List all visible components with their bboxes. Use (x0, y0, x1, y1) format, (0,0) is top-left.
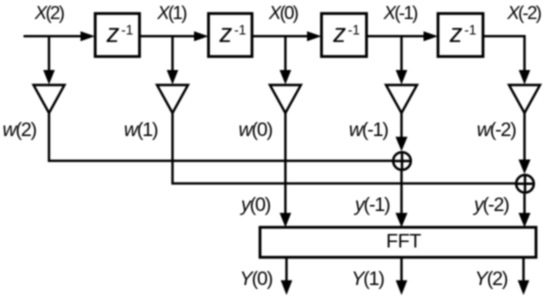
wire: between delay 2 and delay 3 (252, 35, 310, 37)
svg-text:-1: -1 (234, 22, 246, 37)
delay block U4 z^-1 (438, 14, 483, 57)
wire: column 1 multiplier output down to sum line (49, 113, 392, 161)
wire: junction drop column 3 (284, 36, 286, 70)
svg-text:w(1): w(1) (124, 119, 158, 141)
arrowhead into multiplier 3 (280, 70, 292, 85)
svg-text:w(2): w(2) (3, 119, 37, 141)
adder 1 (circle-plus) (393, 152, 411, 170)
svg-text:X(0): X(0) (268, 2, 299, 23)
delay block U2 z^-1 (209, 14, 253, 57)
wire: column 3 multiplier output down to FFT (284, 113, 286, 214)
delay block U3 z^-1 (322, 14, 367, 57)
wire: between delay 3 and delay 4 (367, 35, 427, 37)
wire: junction drop column 2 (171, 36, 173, 70)
svg-text:w(0): w(0) (239, 119, 273, 141)
wire: adder 2 output down to FFT (523, 194, 525, 214)
adder 2 (circle-plus) (516, 175, 534, 193)
arrowhead y(0) into FFT (280, 213, 292, 228)
arrowhead into adder 1 (396, 137, 408, 152)
multiplier triangle w(2) (34, 85, 65, 113)
svg-text:X(-2): X(-2) (506, 2, 542, 23)
svg-text:z: z (449, 20, 463, 48)
wire: FFT output stem Y(2) (522, 257, 524, 282)
arrowhead into multiplier 1 (43, 70, 55, 85)
arrowhead output Y(0) (281, 280, 293, 295)
wire: delay 4 output to column 5 corner (483, 36, 525, 70)
svg-text:X(-1): X(-1) (383, 2, 419, 23)
arrowhead into adder 2 (519, 160, 531, 175)
svg-text:z: z (332, 20, 346, 48)
svg-text:w(-2): w(-2) (477, 119, 517, 141)
wire: adder 1 output down to FFT (400, 171, 402, 214)
wire: top input line into first delay (24, 35, 84, 37)
svg-text:-1: -1 (464, 22, 476, 37)
arrowhead y(-1) into FFT (396, 213, 408, 228)
arrowhead y(-2) into FFT (519, 213, 531, 228)
svg-text:X(2): X(2) (34, 2, 65, 23)
svg-text:y(-1): y(-1) (353, 194, 390, 216)
wire: column 5 multiplier output into adder (523, 113, 525, 161)
svg-text:y(-2): y(-2) (472, 194, 509, 216)
multiplier triangle w(-2) (509, 85, 540, 113)
wire: FFT output stem Y(0) (285, 257, 287, 282)
multiplier triangle w(-1) (386, 85, 417, 113)
arrowhead output Y(1) (396, 280, 408, 295)
wire: junction drop column 4 (400, 36, 402, 70)
svg-text:Y(0): Y(0) (240, 268, 273, 290)
wire: FFT output stem Y(1) (400, 257, 402, 282)
wire: junction drop column 1 (48, 36, 50, 70)
wire: between delay 1 and delay 2 (140, 35, 197, 37)
arrowhead into delay 2 (194, 31, 209, 41)
arrowhead into multiplier 2 (167, 70, 179, 85)
svg-text:X(1): X(1) (156, 2, 187, 23)
svg-text:Y(2): Y(2) (475, 268, 508, 290)
arrowhead output Y(2) (518, 280, 530, 295)
multiplier triangle w(0) (270, 85, 301, 113)
svg-text:Y(1): Y(1) (351, 268, 384, 290)
svg-text:z: z (219, 20, 233, 48)
multiplier triangle w(1) (157, 85, 188, 113)
arrowhead into multiplier 5 (519, 70, 531, 85)
wire: column 2 multiplier output down to sum line (173, 113, 516, 183)
FFT block (260, 227, 536, 257)
arrowhead into delay 4 (424, 31, 439, 41)
svg-text:FFT: FFT (386, 231, 421, 253)
delay block U1 z^-1 (95, 14, 139, 57)
arrowhead into multiplier 4 (396, 70, 408, 85)
arrowhead into delay 1 (81, 31, 96, 41)
svg-text:w(-1): w(-1) (349, 119, 389, 141)
svg-text:-1: -1 (348, 22, 360, 37)
svg-text:y(0): y(0) (239, 194, 271, 216)
svg-text:z: z (106, 20, 120, 48)
wire: column 4 multiplier output into adder (400, 113, 402, 138)
svg-text:-1: -1 (121, 22, 133, 37)
arrowhead into delay 3 (307, 31, 322, 41)
